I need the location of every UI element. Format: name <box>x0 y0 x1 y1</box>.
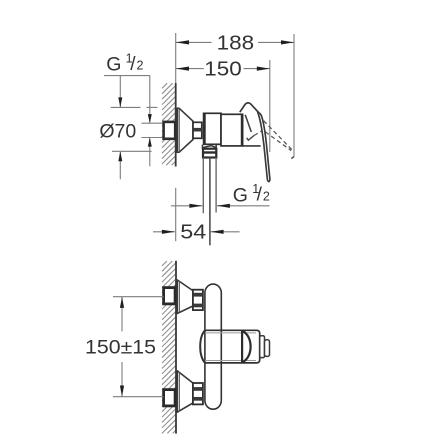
outlet collar nut <box>203 149 217 158</box>
handle hood curve <box>240 103 261 116</box>
outlet tube G1/2 <box>203 158 216 246</box>
body capsule (front view) <box>205 284 221 409</box>
svg-text:/: / <box>130 54 136 75</box>
cap front edge <box>245 115 251 132</box>
valve cylinder (front view) <box>200 330 260 363</box>
lower wall union square (front view) <box>164 390 176 406</box>
wall face line (front view) <box>175 261 177 434</box>
svg-text:/: / <box>257 185 263 206</box>
extension lines of wall union square <box>142 123 164 137</box>
lever underside mark <box>247 135 255 140</box>
svg-text:150: 150 <box>204 58 241 80</box>
lower S-union hex nut (front view) <box>193 383 203 404</box>
lever handle (down position) <box>258 113 270 182</box>
wall face line (side view) <box>175 83 177 167</box>
dimension diameter 70 (escutcheon) <box>99 76 157 180</box>
wall hatching (side view) <box>162 83 176 165</box>
extension line left (wall plane, above view) <box>175 33 177 83</box>
label G 1/2 (outlet thread) with leader <box>171 182 270 208</box>
upper escutcheon cone (front view) <box>177 280 193 314</box>
dimension 188 <box>176 33 294 159</box>
dimension 150 plus/minus 15 <box>85 297 164 397</box>
svg-text:2: 2 <box>263 189 270 203</box>
handle stub flange (front view) <box>260 336 265 358</box>
extension line left (wall plane, below view for 54 dim) <box>175 188 177 241</box>
svg-text:G: G <box>106 53 121 75</box>
svg-text:150±15: 150±15 <box>85 337 156 359</box>
wall hatching (front view) <box>162 261 176 433</box>
outlet step <box>202 145 216 148</box>
upper S-union hex nut (front view) <box>193 290 203 310</box>
dimension 54 <box>153 222 240 244</box>
cartridge dome (front view) <box>242 331 251 363</box>
cartridge housing block <box>204 113 221 144</box>
wall union square G1/2 (side view) <box>164 122 176 139</box>
lower escutcheon cone (front view) <box>177 371 193 412</box>
upper wall union square (front view) <box>164 288 176 304</box>
handle stub tip (front view) <box>265 340 270 357</box>
svg-text:54: 54 <box>180 222 206 244</box>
dimension 150 <box>176 58 270 152</box>
svg-text:G: G <box>233 184 248 206</box>
lever alternate position (dashed) <box>254 116 292 151</box>
main valve body block <box>221 114 261 146</box>
svg-text:Ø70: Ø70 <box>99 121 136 143</box>
escutcheon cone (side view) <box>177 108 193 152</box>
S-union hex nut (side view) <box>193 122 202 138</box>
svg-text:188: 188 <box>217 33 255 55</box>
svg-text:2: 2 <box>137 58 144 72</box>
label G 1/2 (wall union thread) <box>104 51 152 166</box>
